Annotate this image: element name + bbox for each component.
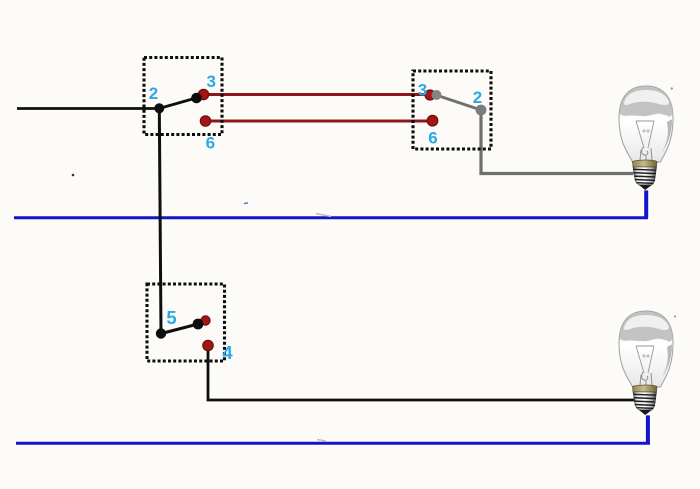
switch S2 common terminal 2 dot (gray) [476,105,487,116]
neutral wire N1 (blue, upper run) [14,216,648,219]
switch S1 enclosure (dotted box) [144,58,222,135]
svg-text:3: 3 [206,72,215,91]
switch S1 terminal 3 contact (red) [198,89,208,99]
lamp LP2 [619,311,673,415]
wire: S1 terminal 2 down to S3 terminal 5 [159,109,161,334]
dust speck near lamp LP1 [671,87,673,89]
svg-text:5: 5 [166,307,176,328]
svg-text:2: 2 [149,84,158,103]
wire: lamp LP1 tip to neutral N1 [644,190,648,217]
traveler wire 6 (dark red) [207,120,430,123]
switch S3 terminal contact behind lever (red) [201,316,210,325]
switch S3 common terminal 5 dot [156,328,166,338]
switch S2 enclosure (dotted box) [413,71,491,149]
svg-text:6: 6 [428,129,437,148]
stray smudge above neutral N2 [317,440,326,442]
switch S2 terminal 3 contact (red) [425,90,435,100]
dust speck near lamp LP2 [674,315,676,317]
svg-text:2: 2 [473,88,482,107]
stray smudge above neutral N1 [316,214,331,217]
switch S1 lever end dot [191,93,202,104]
svg-text:6: 6 [206,134,215,153]
switch S1 terminal 6 contact (red) [200,116,210,126]
svg-text:3: 3 [418,81,427,100]
neutral wire N2 (blue, lower run) [16,442,650,445]
switch S1 lever [159,98,196,109]
lamp LP1 [619,86,673,190]
switch S3 lever end dot [193,319,204,330]
switch S2 terminal 6 contact (red) [427,115,438,126]
switch S3 lever [162,324,199,334]
switch S3 enclosure (dotted box) [147,284,225,361]
switch S2 lever end dot (gray) [432,90,442,100]
stray ink dot [72,174,75,177]
switch S3 terminal 4 contact (red) [203,340,213,350]
svg-text:4: 4 [222,342,233,363]
wire: S2 terminal 2 to lamp LP1 (gray) [481,112,634,174]
phase wire into switch S1 terminal 2 [17,107,159,110]
stray blue tick [244,202,248,205]
switch S1 common terminal 2 dot [154,103,164,113]
wire: S3 terminal 4 to lamp LP2 [208,348,641,400]
wire: lamp LP2 tip to neutral N2 [646,415,650,443]
traveler wire 3 (dark red) [206,93,429,96]
switch S2 lever [436,95,481,110]
